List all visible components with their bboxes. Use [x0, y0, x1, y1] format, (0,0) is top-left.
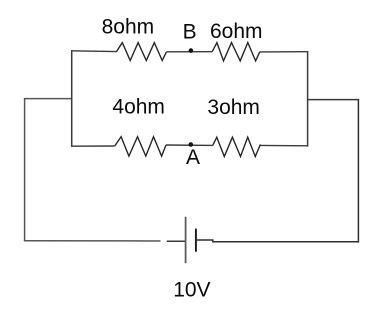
resistor R4 3ohm zigzag — [213, 137, 261, 156]
wire: outer right vertical — [357, 99, 359, 243]
wire: bottom left run to battery — [24, 240, 161, 242]
resistor R1 8ohm zigzag — [116, 43, 166, 61]
wire: battery to bottom right run — [196, 240, 359, 242]
svg-text:6ohm: 6ohm — [210, 20, 263, 43]
wire: top branch middle segment through node B — [167, 51, 213, 53]
wire: inner left vertical — [71, 50, 73, 146]
wire: bottom branch middle segment through node A — [166, 144, 213, 146]
battery BT1 positive plate (long) — [185, 217, 187, 264]
wire: inner right vertical — [307, 52, 309, 147]
wire: top branch right segment — [260, 51, 309, 53]
resistor R3 4ohm zigzag — [115, 137, 166, 156]
svg-text:4ohm: 4ohm — [112, 96, 165, 119]
svg-text:10V: 10V — [173, 279, 210, 302]
battery BT1 negative plate (short) — [195, 229, 197, 252]
svg-text:8ohm: 8ohm — [102, 16, 155, 39]
node A junction dot — [189, 142, 194, 147]
wire: mid-left connection — [24, 98, 72, 100]
wire: top branch left segment — [71, 50, 116, 53]
wire: bottom branch right segment — [260, 144, 308, 146]
svg-text:B: B — [183, 21, 197, 44]
wire: short stub into battery positive plate — [167, 240, 186, 242]
wire: bottom branch left segment — [71, 145, 115, 147]
wire: outer left vertical — [24, 99, 26, 242]
node B junction dot — [189, 48, 194, 53]
svg-text:A: A — [186, 146, 200, 169]
resistor R2 6ohm zigzag — [212, 43, 260, 61]
svg-text:3ohm: 3ohm — [207, 96, 260, 119]
wire: mid-right connection — [307, 99, 359, 101]
